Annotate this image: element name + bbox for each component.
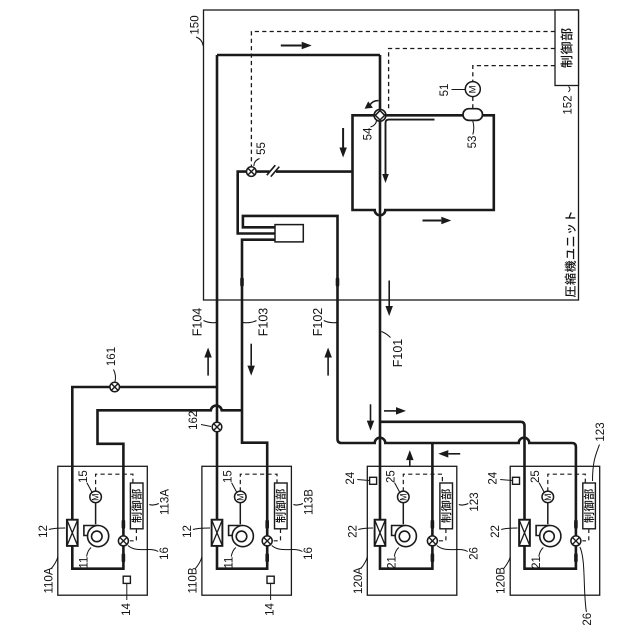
fan motor shaft in 120A: [402, 502, 404, 524]
svg-text:21: 21: [531, 556, 543, 569]
bead above valve 16: [122, 520, 126, 530]
bead below valve 16: [122, 553, 126, 563]
heat exchanger 22 in 120B: [519, 520, 530, 546]
pipe: expansion valve 55 line into loop: [256, 170, 353, 173]
pipe: branch from F101 to unit 120B: [380, 422, 525, 520]
compressor unit enclosure box 150: [204, 10, 579, 300]
flow arrow down F101: [388, 281, 390, 307]
svg-text:15: 15: [78, 470, 90, 483]
svg-text:11: 11: [223, 557, 235, 569]
svg-text:123: 123: [595, 422, 607, 441]
fan motor shaft in 110B: [239, 502, 241, 524]
svg-text:24: 24: [488, 471, 500, 484]
svg-text:M: M: [543, 494, 553, 501]
pipe: unit 120A return drop: [380, 443, 432, 569]
indoor unit box 120A: [367, 466, 457, 595]
svg-text:16: 16: [303, 547, 315, 560]
svg-text:120A: 120A: [353, 567, 365, 594]
fan motor 25 (M) in 120B: [542, 491, 554, 503]
bead below valve 16: [265, 553, 269, 563]
control unit text: [560, 28, 572, 67]
heat exchanger 22 in 120A: [375, 520, 386, 546]
bead above valve 26: [431, 520, 435, 530]
dashed control line to valve 26 in 120B: [582, 529, 588, 541]
svg-text:F102: F102: [311, 308, 325, 337]
rotation arrow at valve 54: [370, 101, 379, 105]
motor 51 (M): [465, 82, 480, 97]
service bead on F103: [240, 277, 244, 287]
svg-text:14: 14: [265, 603, 277, 616]
dashed control line motor to control box in 110B: [240, 474, 277, 491]
flow arrow right (top dashed area): [281, 45, 302, 47]
svg-text:22: 22: [347, 525, 359, 538]
svg-text:55: 55: [256, 142, 268, 155]
pipe: valve 161 branch line: [72, 387, 217, 520]
dashed control line motor to control box in 120B: [548, 474, 586, 491]
svg-text:51: 51: [439, 84, 451, 97]
fan 21 in 120A: [392, 526, 406, 536]
fan motor shaft in 110A: [95, 502, 97, 524]
svg-text:24: 24: [345, 471, 357, 484]
pipe: compressor loop rectangle with crossing jump at bottom: [353, 115, 494, 215]
valve 161: [110, 382, 120, 392]
dashed control line to valve 55: [251, 32, 555, 167]
svg-text:110A: 110A: [43, 567, 55, 593]
svg-text:162: 162: [188, 411, 200, 430]
svg-text:21: 21: [386, 556, 398, 569]
pipe: valve 55 to receiver lower port: [238, 172, 275, 234]
dashed control line to valve 16 in 110A: [130, 529, 137, 541]
dashed control line motor to control box in 120A: [403, 474, 442, 491]
control box (seigyobu) in 120A: [440, 483, 453, 529]
pipe: receiver top port Z-line to F102: [243, 216, 576, 569]
indoor unit box 110B: [202, 466, 292, 595]
heat exchanger 12 in 110A: [67, 520, 78, 546]
expansion valve 16 in 110B: [262, 536, 272, 546]
svg-text:25: 25: [530, 470, 542, 483]
svg-text:F103: F103: [257, 308, 271, 337]
svg-text:26: 26: [468, 547, 480, 560]
dashed control line to valve 16 in 110B: [274, 529, 281, 541]
expansion valve 26 in 120A: [427, 536, 437, 546]
heat exchanger 12 in 110B: [212, 520, 223, 546]
svg-text:53: 53: [467, 136, 479, 149]
svg-text:11: 11: [79, 557, 91, 569]
svg-text:12: 12: [182, 525, 194, 538]
receiver / subcooler box: [275, 225, 303, 242]
control unit box 152 (seigyobu): [555, 10, 579, 86]
flow arrow up F104: [207, 358, 209, 376]
svg-text:54: 54: [363, 127, 375, 140]
bead below valve 26: [574, 553, 578, 563]
pipe: discharge loop top-left (F104 riser to four-way valve): [217, 55, 380, 520]
svg-text:161: 161: [106, 347, 118, 366]
svg-text:M: M: [235, 494, 245, 501]
flow arrow down F103: [250, 344, 252, 366]
compressor unit text (assyukuki unit): [565, 212, 576, 297]
svg-text:110B: 110B: [187, 567, 199, 593]
svg-text:F101: F101: [391, 339, 405, 368]
dashed control line motor to control box in 110A: [96, 474, 133, 491]
flow arrow up from unit 120A: [409, 460, 411, 466]
fan 21 in 120B: [536, 526, 550, 536]
fan motor 25 (M) in 120A: [398, 491, 410, 503]
pipe: four-way valve drop / F101 line: [379, 55, 382, 520]
bead below valve 26: [431, 553, 435, 563]
expansion valve 16 in 110A: [118, 536, 128, 546]
four-way valve 54: [374, 109, 386, 121]
control box (seigyobu) in 110A: [130, 483, 143, 529]
flow arrow down at F101 corner: [370, 404, 372, 420]
flow arrow down (left of loop): [342, 128, 344, 148]
svg-text:M: M: [398, 494, 408, 501]
indoor unit box 110A: [58, 466, 148, 595]
svg-text:120B: 120B: [496, 567, 508, 594]
svg-text:152: 152: [563, 95, 575, 114]
bead above valve 26: [574, 520, 578, 530]
fan motor 15 (M) in 110B: [235, 491, 247, 503]
pipe: indoor return line to F103 junction with jump over F104: [72, 406, 242, 569]
temperature sensor 14 in 110B: [267, 576, 274, 583]
svg-text:M: M: [91, 494, 101, 501]
expansion valve 55: [247, 167, 257, 177]
pipe: receiver bottom port to F103: [217, 240, 275, 569]
flow arrow inside loop (four-way valve routing): [386, 120, 435, 174]
dashed control line to valve 26 in 120A: [439, 529, 446, 541]
pipe break symbol (capillary) right of valve 55: [267, 165, 280, 176]
fan 11 in 110B: [229, 526, 243, 536]
svg-text:123: 123: [469, 492, 481, 511]
svg-text:F104: F104: [191, 308, 205, 337]
fan motor 15 (M) in 110A: [90, 491, 102, 503]
svg-text:113A: 113A: [160, 489, 172, 515]
flow arrow left on return line: [448, 453, 460, 455]
temperature sensor 24 in 120B: [513, 477, 520, 484]
dashed shaft motor 51 to compressor 53: [472, 97, 474, 109]
compressor 53 (oval): [463, 109, 483, 121]
svg-text:26: 26: [582, 613, 594, 626]
svg-text:15: 15: [223, 470, 235, 483]
dashed control line to motor 51: [473, 66, 555, 82]
fan 11 in 110A: [84, 526, 98, 536]
svg-text:22: 22: [490, 525, 502, 538]
dashed control line to four-way valve 54: [389, 49, 555, 111]
svg-text:16: 16: [159, 547, 171, 560]
svg-text:12: 12: [38, 525, 50, 538]
flow arrow up F102: [327, 358, 329, 376]
svg-text:113B: 113B: [304, 489, 316, 515]
flow arrow right at F101 corner: [384, 410, 396, 412]
svg-text:14: 14: [121, 603, 133, 616]
temperature sensor 14 in 110A: [123, 576, 130, 583]
flow arrow right (below loop): [423, 220, 442, 222]
bead above valve 16: [265, 520, 269, 530]
valve 162: [212, 422, 222, 432]
temperature sensor 24 in 120A: [370, 477, 377, 484]
control box (seigyobu) in 120B: [583, 483, 596, 529]
svg-text:M: M: [467, 85, 478, 93]
service bead on F102: [336, 277, 340, 287]
fan motor shaft in 120B: [547, 502, 549, 524]
svg-text:150: 150: [190, 15, 202, 34]
control box (seigyobu) in 110B: [275, 483, 288, 529]
indoor unit box 120B: [510, 466, 600, 595]
svg-text:25: 25: [386, 470, 398, 483]
expansion valve 26 in 120B: [571, 536, 581, 546]
